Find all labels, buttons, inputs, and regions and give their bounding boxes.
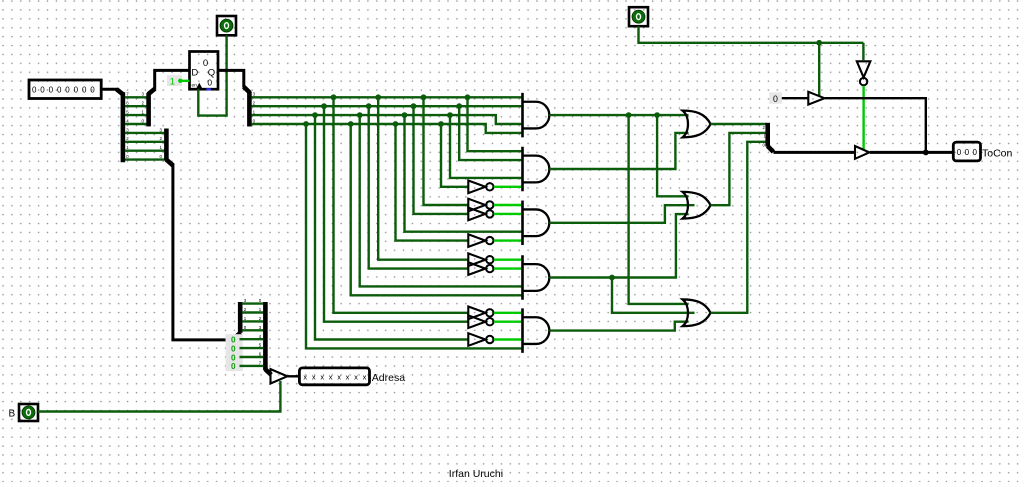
svg-text:0: 0 bbox=[231, 353, 236, 362]
controlled buffer U12 bbox=[271, 369, 288, 383]
wire B to buffer U12 control bbox=[38, 381, 280, 412]
input pin B (value 0) bbox=[19, 404, 38, 421]
controlled buffer U10 bbox=[808, 92, 824, 105]
wire constant-1 to U1 en bbox=[180, 80, 190, 82]
inverter NOT5 (row y=260) bbox=[468, 253, 485, 266]
wire S1 bit0 bbox=[125, 158, 165, 160]
label Adresa bbox=[372, 372, 405, 384]
AND gate U6 bbox=[523, 317, 550, 344]
wire const0 bit4 to SR bbox=[240, 338, 264, 340]
wire drop A3 junction bbox=[312, 112, 318, 118]
wire AND U2 branch to OR U8 top bbox=[657, 115, 688, 196]
wire const0 bit5 to SR bbox=[240, 347, 264, 349]
wire drop B4 junction bbox=[348, 121, 354, 127]
wire drop C4 bbox=[396, 124, 469, 241]
wire SL bit2 to SR bbox=[242, 311, 263, 313]
wire S1 bit7 bbox=[125, 96, 147, 98]
wire S1 bit1 bbox=[125, 149, 165, 151]
wire drop A3 bbox=[315, 115, 468, 339]
svg-text:x: x bbox=[320, 372, 324, 381]
svg-text:0: 0 bbox=[82, 85, 87, 94]
wire S1 bit3 bbox=[125, 132, 165, 134]
wire buffer U10 out bbox=[825, 98, 926, 152]
wire NOT1 output bbox=[494, 186, 523, 188]
wire drop B2 bbox=[369, 106, 469, 268]
wire drop C1 junction bbox=[421, 94, 427, 100]
wire OR U8 out to splitter S3 bbox=[711, 133, 767, 205]
inverter NOT8 (row y=322) bbox=[468, 315, 485, 328]
svg-text:x: x bbox=[337, 372, 341, 381]
wire AND U5 out to OR U8 bottom bbox=[549, 214, 688, 277]
wire drop A1 bbox=[334, 97, 469, 312]
wire drop B3 junction bbox=[357, 112, 363, 118]
splitter SL (4-bit fan-out) bbox=[233, 333, 241, 340]
svg-text:0: 0 bbox=[49, 85, 54, 94]
splitter SA (4-bit fan-in) bbox=[146, 93, 151, 126]
wire drop D1 bbox=[468, 97, 523, 151]
wire drop A4 junction bbox=[303, 121, 309, 127]
splitter SB (4-bit fan-in) bbox=[164, 129, 169, 161]
pin stub (floating, blue) bbox=[206, 88, 211, 90]
node output join bbox=[923, 150, 929, 156]
wire drop B4 bbox=[351, 124, 523, 295]
register U1 (D flip-flop, value 0) bbox=[190, 52, 219, 90]
wire S1 bit6 bbox=[125, 105, 147, 107]
wire drop A1 junction bbox=[331, 94, 337, 100]
wire drop C2 bbox=[414, 106, 469, 214]
node AND U5 out branch bbox=[609, 275, 615, 281]
svg-text:Irfan Uruchi: Irfan Uruchi bbox=[449, 468, 503, 480]
wire H3 (Q1 row) bbox=[251, 115, 522, 124]
wire NOT8 output bbox=[494, 321, 523, 323]
input pin IN (8-bit, value 00000000) bbox=[29, 80, 101, 99]
splitter S2 (4-bit fan-out) bbox=[244, 87, 250, 93]
OR gate U7 bbox=[683, 111, 711, 138]
wire SL bit0 to SR bbox=[242, 329, 263, 331]
wire H1 (Q3 row) bbox=[251, 96, 522, 98]
wire SL bit3 to SR bbox=[242, 302, 263, 304]
wire drop D1 junction bbox=[465, 94, 471, 100]
splitter SR (8-bit fan-in) bbox=[263, 302, 268, 370]
splitter S3 (3-bit fan-in) bbox=[765, 123, 770, 147]
wire AND U3 out to OR U7 bottom bbox=[549, 133, 688, 169]
wire S1 bit2 bbox=[125, 141, 165, 143]
svg-text:0: 0 bbox=[207, 78, 212, 88]
inverter NOT9 (row y=340) bbox=[468, 333, 485, 346]
output pin Adresa (8-bit) bbox=[299, 368, 369, 385]
svg-text:x: x bbox=[363, 372, 367, 381]
wire const0 to buffer U10 bbox=[782, 97, 809, 99]
controlled buffer U11 bbox=[855, 146, 869, 159]
wire drop D3 bbox=[450, 115, 523, 178]
wire NOT5 output bbox=[494, 259, 523, 261]
constant 0 (buffer U10 input) bbox=[769, 92, 782, 104]
wire drop C1 bbox=[424, 97, 469, 205]
wire CLK to U1 clock bbox=[198, 35, 226, 115]
svg-text:en: en bbox=[192, 84, 198, 89]
svg-text:x: x bbox=[312, 372, 316, 381]
wire drop D2 bbox=[459, 106, 522, 160]
wire S1 bit4 bbox=[125, 123, 147, 125]
svg-text:x: x bbox=[303, 372, 307, 381]
inverter NOT7 (row y=313) bbox=[468, 307, 485, 320]
splitter S1 bit labels bbox=[126, 92, 129, 159]
input pin EN2 (top right, value 0) bbox=[629, 7, 648, 26]
svg-text:ToCon: ToCon bbox=[982, 148, 1013, 160]
svg-text:1: 1 bbox=[170, 77, 175, 88]
wire AND U4 out to OR U8 middle bbox=[549, 205, 694, 223]
wire NOT4 output bbox=[494, 239, 523, 241]
wire drop A4 bbox=[306, 124, 523, 348]
wire EN2 branch to buffer U10 control bbox=[818, 43, 820, 96]
svg-text:0: 0 bbox=[32, 85, 37, 94]
wire AND U2 branch to OR U9 top bbox=[629, 115, 689, 304]
node AND U2 out branch 1 bbox=[626, 112, 632, 118]
wire drop A2 bbox=[324, 106, 468, 322]
node EN2 branch bbox=[816, 40, 822, 46]
wire drop A2 junction bbox=[321, 103, 327, 109]
wire drop D2 junction bbox=[456, 103, 462, 109]
wire NOT2 output bbox=[494, 204, 523, 206]
AND gate U3 bbox=[523, 156, 550, 183]
OR gate U8 bbox=[683, 192, 711, 219]
wire drop C2 junction bbox=[411, 103, 417, 109]
wire AND U6 out to OR U9 bottom bbox=[549, 322, 688, 331]
svg-text:0: 0 bbox=[231, 344, 236, 353]
wire H4 (Q0 row) bbox=[251, 124, 522, 133]
wire U1 Q to splitter S2 (4-bit bus) bbox=[218, 70, 244, 87]
wire NOT9 output bbox=[494, 338, 523, 340]
wire SL bit1 to SR bbox=[242, 320, 263, 322]
inverter NOT3 (row y=214) bbox=[468, 208, 485, 221]
wire drop B2 junction bbox=[366, 103, 372, 109]
wire AND U5 branch to OR U9 middle bbox=[612, 278, 695, 313]
text Irfan Uruchi bbox=[449, 468, 503, 480]
label B bbox=[9, 408, 16, 419]
wire const0 bit6 to SR bbox=[240, 356, 264, 358]
svg-text:0: 0 bbox=[773, 94, 778, 104]
inverter NOTV (vertical) bbox=[857, 61, 871, 77]
inverter NOT6 (row y=269) bbox=[468, 262, 485, 275]
wire OR U9 out to splitter S3 bbox=[711, 142, 767, 313]
wire drop D4 bbox=[441, 124, 468, 187]
wire drop B1 bbox=[378, 97, 468, 259]
AND gate U4 bbox=[523, 209, 550, 236]
inverter NOT4 (row y=241) bbox=[468, 234, 485, 247]
svg-text:0: 0 bbox=[74, 85, 79, 94]
wire NOT6 output bbox=[494, 267, 523, 269]
wire S1 bit5 bbox=[125, 114, 147, 116]
wire buffer U12 out to Adresa bbox=[287, 375, 299, 377]
wire NOT7 output bbox=[494, 312, 523, 314]
wire drop B3 bbox=[360, 115, 523, 286]
wire const0 bit7 to SR bbox=[240, 365, 264, 367]
wire EN2 net bbox=[639, 26, 864, 43]
wire drop C3 bbox=[405, 115, 523, 232]
wire drop C4 junction bbox=[393, 121, 399, 127]
svg-text:D: D bbox=[191, 67, 198, 78]
wire OR U7 out to splitter S3 bbox=[711, 123, 767, 125]
svg-text:0: 0 bbox=[90, 85, 95, 94]
label ToCon bbox=[982, 148, 1013, 160]
constants 0 (4x, SR low bits) bbox=[226, 334, 243, 371]
wire drop B1 junction bbox=[375, 94, 381, 100]
svg-text:Adresa: Adresa bbox=[372, 372, 405, 384]
svg-text:0: 0 bbox=[57, 85, 62, 94]
AND gate U5 bbox=[523, 264, 550, 291]
wire AND U2 out to OR U7 bbox=[549, 114, 688, 116]
wire drop D3 junction bbox=[447, 112, 453, 118]
svg-text:x: x bbox=[329, 372, 333, 381]
wire NOTV output to buffer U11 control bbox=[862, 86, 864, 149]
inverter NOT1 (row y=187) bbox=[468, 181, 485, 194]
svg-text:0: 0 bbox=[40, 85, 45, 94]
svg-text:x: x bbox=[354, 372, 358, 381]
wire H2 (Q2 row) bbox=[251, 105, 522, 107]
wire IN to splitter S1 (8-bit bus) bbox=[101, 88, 118, 91]
wire NOT3 output bbox=[494, 213, 523, 215]
svg-text:x: x bbox=[346, 372, 350, 381]
splitter S1 (8-bit fan-out) bbox=[117, 89, 124, 94]
svg-text:0: 0 bbox=[231, 362, 236, 371]
wire S3 bus to buffer U11 (3-bit) bbox=[773, 151, 855, 154]
constant 1 (enable) bbox=[167, 75, 182, 86]
output pin ToCon (3-bit) bbox=[953, 142, 980, 161]
wire drop C3 junction bbox=[402, 112, 408, 118]
svg-text:B: B bbox=[9, 408, 16, 419]
wire SB bus down to lower splitter SL bbox=[173, 164, 233, 340]
AND gate U2 bbox=[523, 102, 550, 129]
svg-text:0: 0 bbox=[65, 85, 70, 94]
svg-text:0: 0 bbox=[231, 336, 236, 345]
inverter NOT2 (row y=205) bbox=[468, 199, 485, 212]
wire NOTV input bbox=[862, 43, 864, 60]
wire buffer U11 out to ToCon bbox=[870, 151, 954, 154]
node AND U2 out branch 2 bbox=[654, 112, 660, 118]
svg-text:0 0 0: 0 0 0 bbox=[957, 148, 978, 157]
wire SA to register D (4-bit bus) bbox=[155, 70, 190, 89]
input pin CLK (top, value 0) bbox=[217, 16, 236, 35]
OR gate U9 bbox=[683, 299, 711, 326]
wire drop D4 junction bbox=[438, 121, 444, 127]
